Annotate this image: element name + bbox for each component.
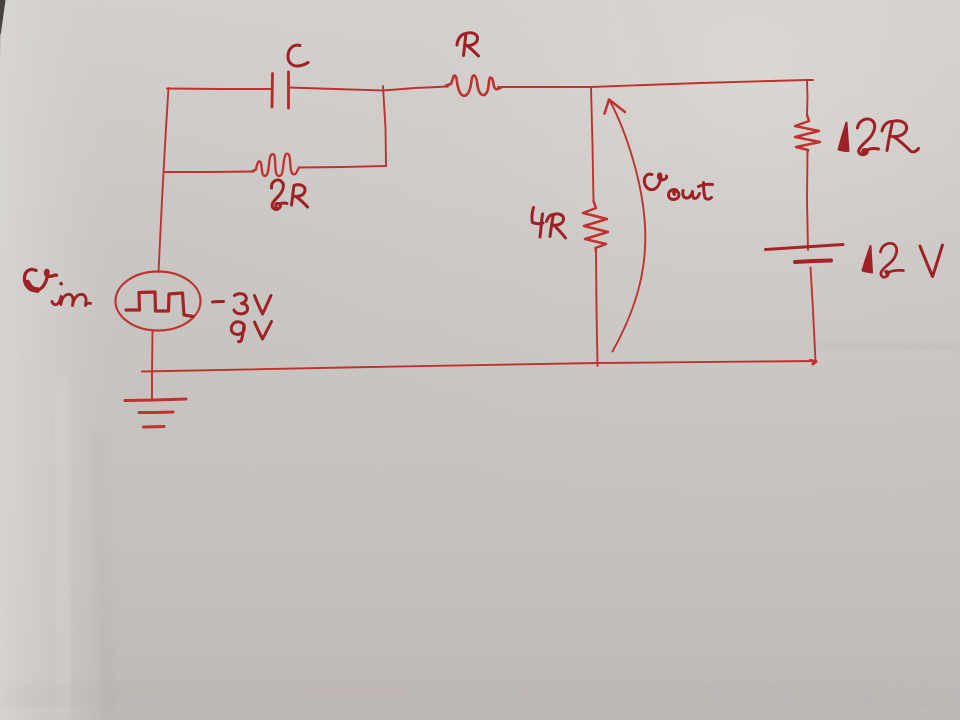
resistor 2R <box>252 154 300 176</box>
photo corner (dark background beyond paper edge, top-left) <box>0 0 6 35</box>
wire: middle vertical upper (junction to 4R) <box>591 87 594 201</box>
label 4R <box>532 208 543 238</box>
wire: T junction to resistor R <box>383 87 448 91</box>
wire: battery to bottom-right corner <box>811 268 816 362</box>
source Vin square wave <box>126 292 193 317</box>
node: bottom-right corner blob <box>810 361 816 365</box>
paper crease shadows <box>96 430 108 720</box>
labels (handwritten red pen) <box>24 33 942 342</box>
wire: source to bottom wire and ground stem <box>151 332 154 400</box>
battery 12V top plate <box>766 245 844 250</box>
label 9V <box>231 322 244 342</box>
label v_out <box>644 174 666 190</box>
wire: left vertical (top corner down to source) <box>159 88 169 272</box>
label C <box>288 45 308 66</box>
label 12R <box>839 123 849 152</box>
wire: 12R to battery <box>807 152 808 250</box>
wire: bottom horizontal <box>142 361 816 372</box>
source Vin ellipse <box>116 272 201 331</box>
resistor 4R <box>583 201 608 252</box>
resistor 12R <box>795 115 820 152</box>
wire: 2R branch lower-left segment <box>164 171 254 174</box>
ground <box>125 399 186 401</box>
label v_in <box>24 269 56 290</box>
label -3V <box>213 300 224 304</box>
wire: T junction drop (right side of 2R loop) <box>383 86 386 166</box>
wire: capacitor to T junction <box>289 88 384 91</box>
label 2R <box>271 180 287 209</box>
wire: right vertical upper (corner to 12R) <box>806 80 809 115</box>
capacitor C <box>271 74 274 108</box>
label R <box>457 33 479 56</box>
wire: middle junction to top-right corner <box>591 80 813 87</box>
wire: middle vertical lower (4R to bottom wire) <box>596 252 598 366</box>
battery 12V bottom plate <box>795 261 831 263</box>
vout arrow <box>610 100 646 352</box>
wire: R to middle junction <box>498 86 591 88</box>
wire: top-left horizontal to capacitor <box>167 88 272 91</box>
wire: 2R to right drop <box>299 166 386 168</box>
label 12V <box>863 246 873 273</box>
resistor R <box>446 75 501 95</box>
